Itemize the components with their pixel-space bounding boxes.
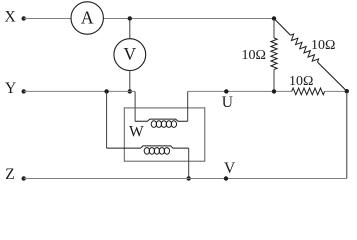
inductor coil upper (W primary)	[135, 119, 188, 121]
wire: right edge down	[346, 91, 348, 178]
node: vertical resistor on U line	[272, 89, 276, 93]
node: top-right junction	[272, 16, 276, 20]
wire U line right segment	[325, 90, 347, 92]
wire U line left segment	[188, 90, 292, 92]
wire: Y junction down to lower coil	[106, 91, 108, 148]
resistor 10ohm diagonal	[291, 34, 319, 62]
wire junction to voltmeter top	[129, 19, 131, 40]
node U	[224, 89, 228, 93]
wire ammeter to top-right junction	[103, 18, 274, 20]
node: top junction above voltmeter	[128, 16, 132, 20]
node V on Z line	[224, 176, 228, 180]
node: right corner	[345, 89, 349, 93]
wire: diagonal lead lower	[318, 62, 347, 91]
svg-text:Z: Z	[5, 166, 14, 183]
wire: Y line end down to upper coil	[134, 91, 136, 121]
box around coils (device W)	[124, 108, 205, 161]
node X terminal	[22, 16, 26, 20]
svg-text:W: W	[129, 124, 144, 141]
wire Y line	[24, 90, 135, 92]
inductor coil lower (W secondary)	[107, 146, 189, 148]
wire Z line	[24, 178, 347, 180]
wire: junction down to vertical resistor	[273, 19, 275, 39]
svg-text:10Ω: 10Ω	[242, 48, 266, 63]
node: Y junction to lower coil	[104, 89, 108, 93]
voltmeter U-V	[114, 39, 146, 71]
svg-text:V: V	[224, 160, 236, 177]
svg-text:10Ω: 10Ω	[289, 74, 313, 89]
wire: diagonal lead upper	[274, 19, 291, 36]
svg-text:X: X	[5, 9, 16, 26]
wire X to ammeter	[24, 18, 71, 20]
wire voltmeter bottom to Y line	[129, 70, 131, 91]
node: lower coil on Z line	[187, 176, 191, 180]
svg-text:A: A	[81, 8, 94, 28]
node Y terminal	[22, 89, 26, 93]
node: voltmeter on Y line	[128, 89, 132, 93]
node Z terminal	[22, 176, 26, 180]
wire: upper coil right lead up to U line	[187, 91, 189, 121]
svg-text:U: U	[222, 94, 233, 111]
svg-text:V: V	[123, 44, 136, 64]
ammeter U-A	[71, 2, 103, 34]
resistor 10ohm vertical	[271, 38, 277, 70]
wire: vertical resistor to U line	[273, 70, 275, 92]
resistor 10ohm horizontal	[292, 88, 325, 95]
svg-text:Y: Y	[5, 80, 16, 97]
svg-text:10Ω: 10Ω	[311, 38, 335, 53]
wire: lower coil right lead down to Z line	[188, 148, 190, 178]
